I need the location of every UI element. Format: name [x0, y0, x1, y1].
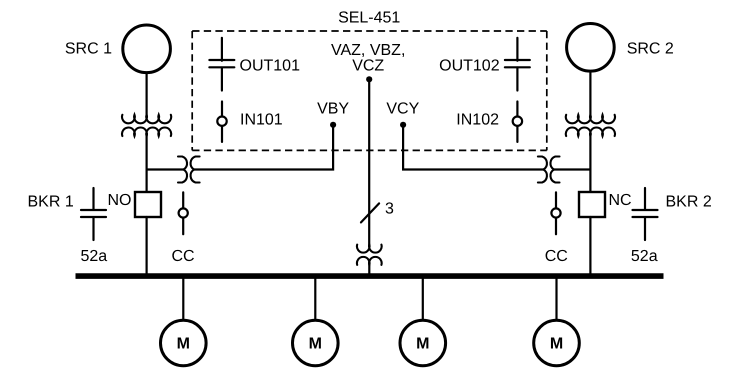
wire bus to motor M4 — [555, 276, 557, 320]
transformer T1 — [122, 115, 171, 136]
svg-text:52a: 52a — [81, 248, 108, 265]
wire X1 to CT1 — [147, 168, 184, 170]
node VAZ dot — [366, 76, 372, 82]
disconnect switch slash — [361, 203, 379, 222]
current transformer CT1 — [178, 157, 200, 183]
svg-text:VAZ, VBZ,: VAZ, VBZ, — [331, 42, 405, 59]
close coil CC left — [179, 192, 188, 234]
wire T1 to BKR1 — [146, 134, 148, 193]
svg-text:IN101: IN101 — [240, 112, 283, 129]
output contact OUT101 — [209, 38, 234, 91]
svg-text:NO: NO — [108, 192, 132, 209]
wire BKR2 to bus — [589, 217, 591, 276]
svg-text:NC: NC — [609, 192, 632, 209]
wire CT2 to X2 — [554, 168, 590, 170]
wire bus to motor M1 — [182, 276, 184, 320]
motor M1 — [161, 320, 207, 366]
svg-text:3: 3 — [385, 201, 394, 218]
svg-text:52a: 52a — [631, 248, 658, 265]
contact 52a BKR2 — [633, 188, 658, 240]
wire VCY to CT2 — [403, 127, 543, 170]
wire CT1 to VBY — [194, 127, 333, 170]
wire SRC2 to T2 — [589, 72, 591, 118]
bus — [76, 273, 664, 279]
svg-text:OUT101: OUT101 — [240, 58, 301, 75]
voltage transformer PT — [357, 245, 382, 265]
transformer T2 — [566, 115, 615, 136]
wire PT to bus — [368, 261, 370, 276]
node VCY dot — [400, 122, 406, 128]
wire BKR1 to bus — [146, 217, 148, 276]
svg-text:BKR 1: BKR 1 — [28, 194, 74, 211]
svg-text:SRC 1: SRC 1 — [65, 41, 112, 58]
svg-text:BKR 2: BKR 2 — [666, 194, 712, 211]
svg-text:SEL-451: SEL-451 — [338, 10, 400, 27]
current transformer CT2 — [538, 157, 560, 183]
svg-text:M: M — [177, 335, 190, 352]
source SRC 1 — [123, 25, 171, 73]
wire bus to motor M2 — [314, 276, 316, 320]
svg-text:CC: CC — [172, 248, 195, 265]
svg-text:VCZ: VCZ — [352, 57, 384, 74]
svg-text:M: M — [416, 335, 429, 352]
svg-text:VCY: VCY — [386, 101, 419, 118]
node VBY dot — [330, 122, 336, 128]
breaker BKR1 — [135, 192, 161, 217]
svg-text:OUT102: OUT102 — [439, 58, 500, 75]
wire SRC1 to T1 — [146, 73, 148, 117]
motor M4 — [534, 320, 580, 366]
input IN102 — [513, 102, 522, 142]
svg-text:M: M — [309, 335, 322, 352]
svg-text:SRC 2: SRC 2 — [627, 41, 674, 58]
breaker BKR2 — [579, 192, 605, 217]
motor M2 — [293, 320, 339, 366]
source SRC 2 — [567, 24, 615, 72]
output contact OUT102 — [505, 38, 530, 91]
close coil CC right — [551, 192, 560, 234]
svg-text:CC: CC — [545, 248, 568, 265]
input IN101 — [217, 102, 226, 142]
wire bus to motor M3 — [422, 276, 424, 320]
wire T2 to BKR2 — [589, 134, 591, 193]
wire VAZ down to PT — [368, 81, 370, 247]
svg-text:IN102: IN102 — [456, 112, 499, 129]
contact 52a BKR1 — [81, 188, 106, 240]
motor M3 — [400, 320, 446, 366]
svg-text:VBY: VBY — [317, 101, 349, 118]
svg-text:M: M — [550, 335, 563, 352]
relay SEL-451 dashed box — [192, 31, 547, 150]
